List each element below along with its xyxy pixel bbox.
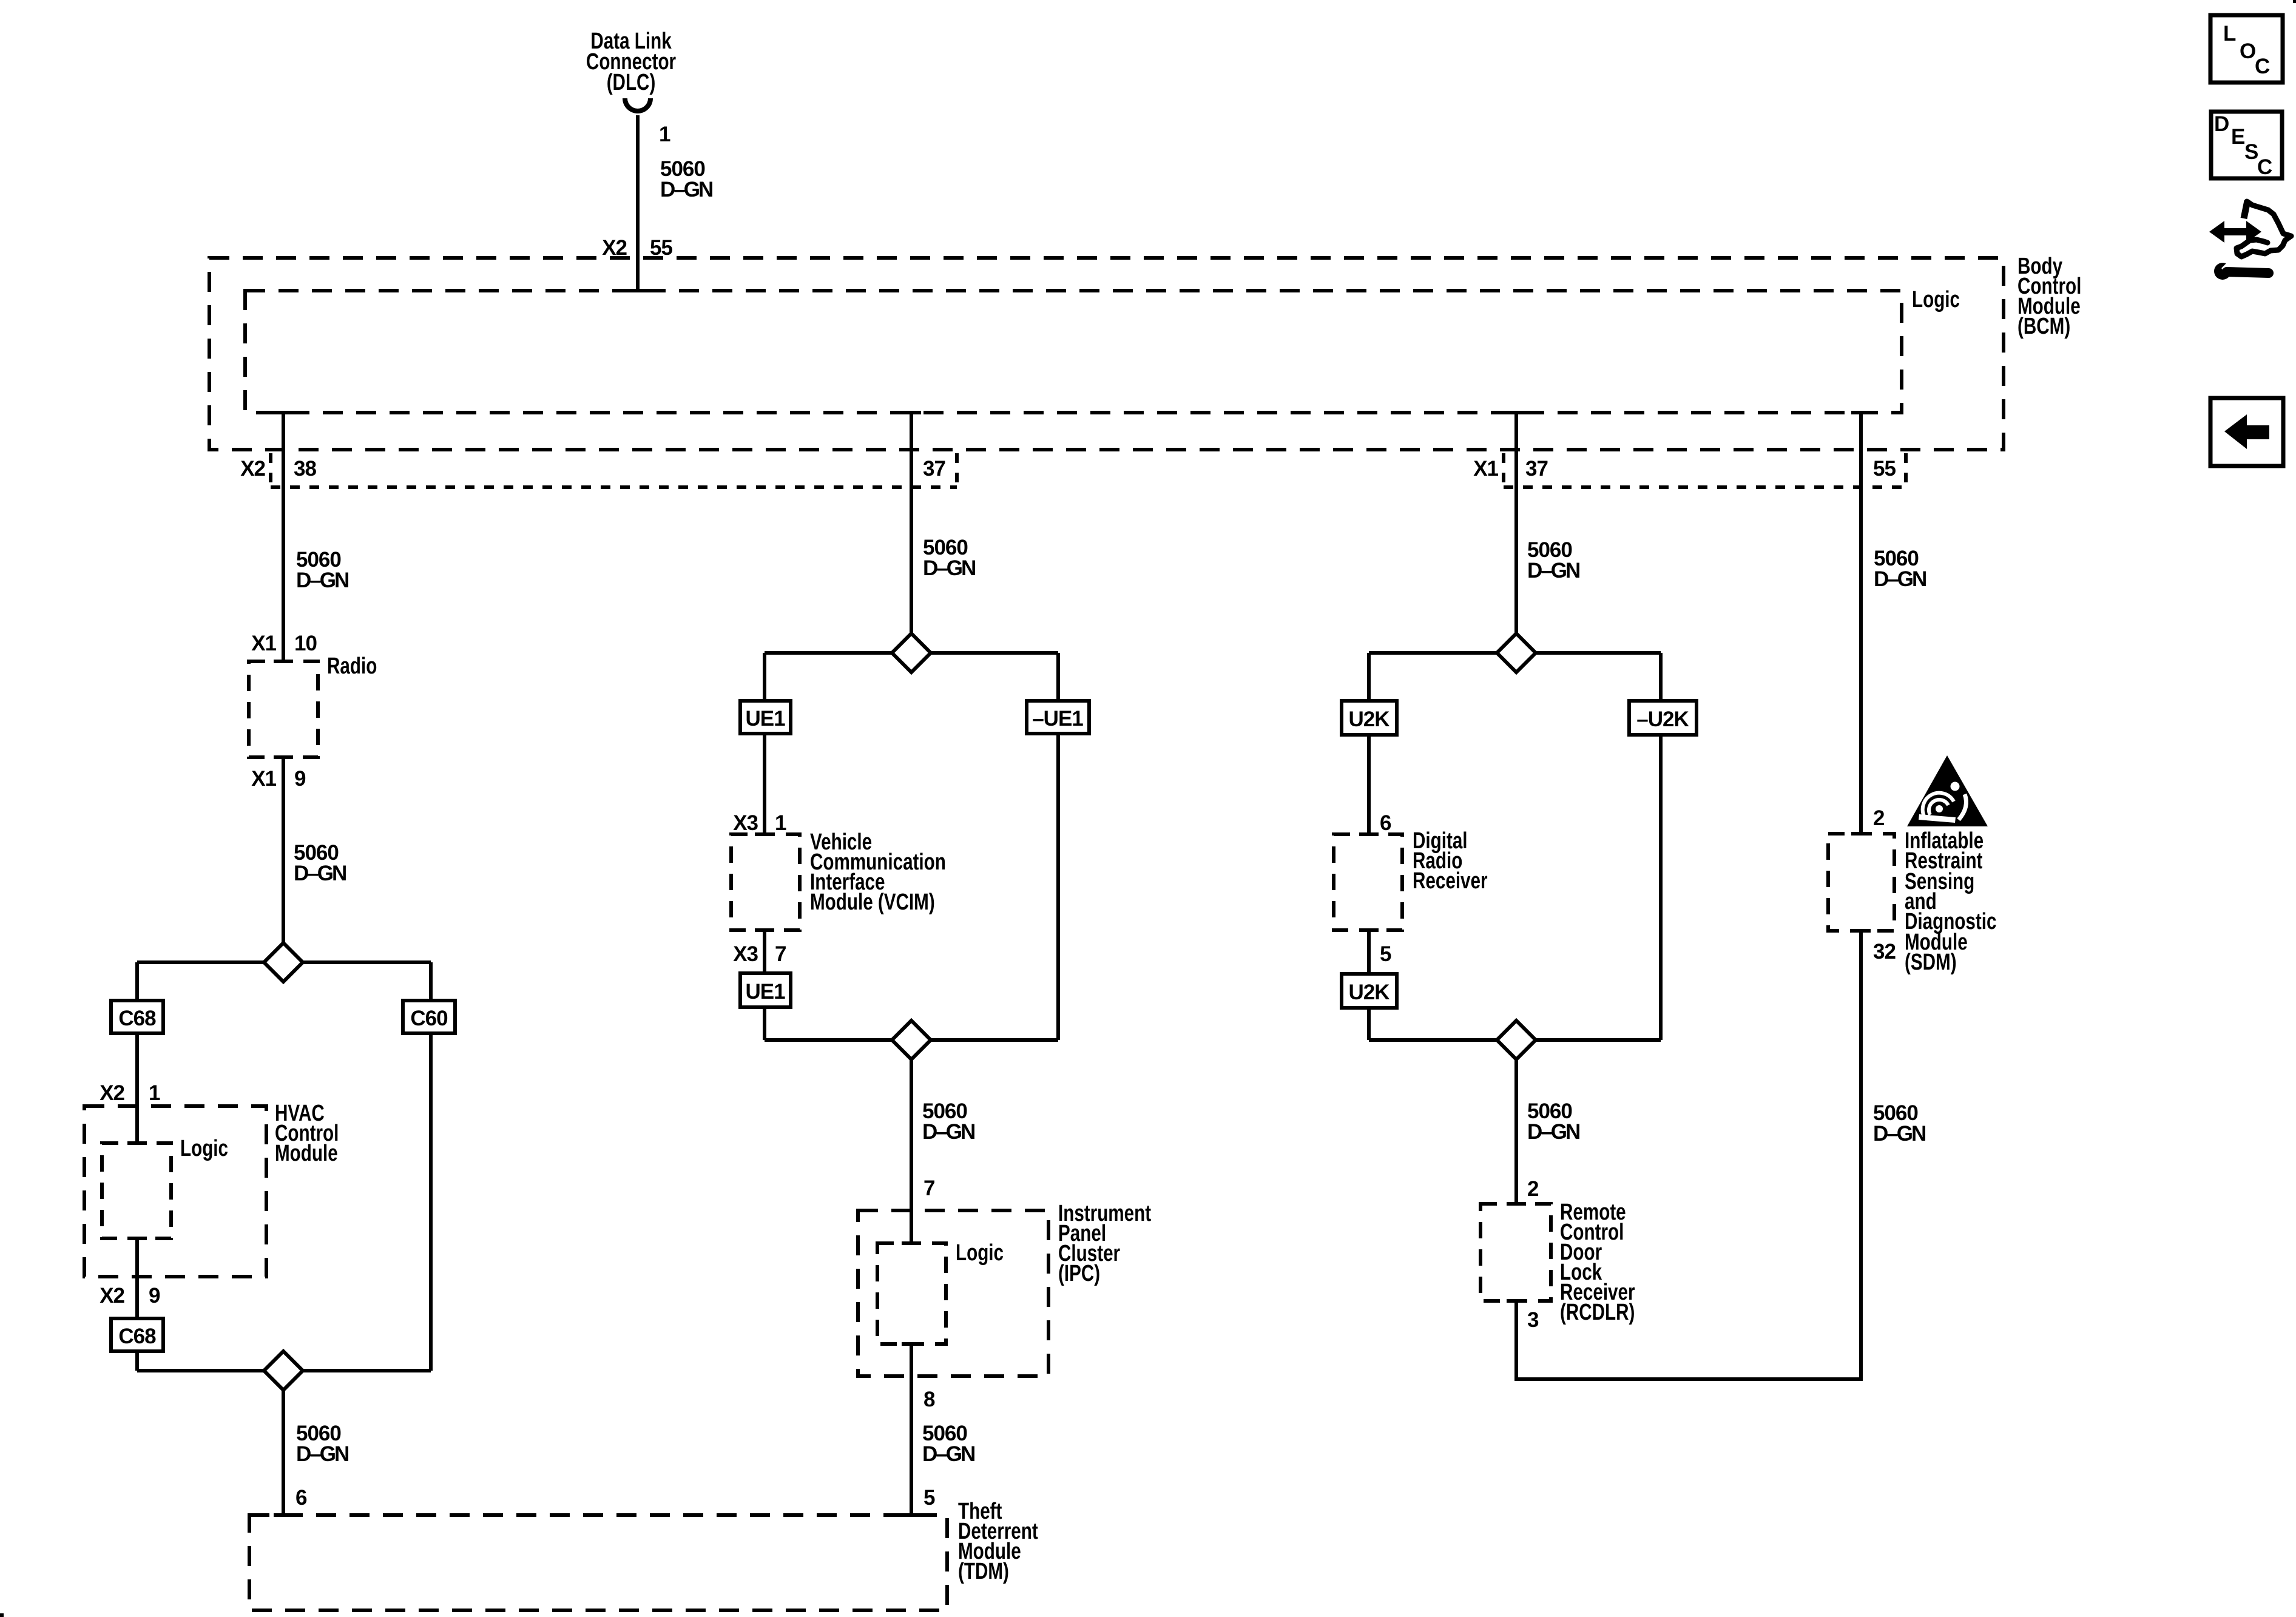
fuse U2K (lower) xyxy=(1342,974,1397,1008)
Digital Radio Receiver label xyxy=(1413,828,1488,894)
wire HVAC X2-9 to C68 xyxy=(135,1238,139,1318)
svg-text:Logic: Logic xyxy=(180,1136,228,1161)
svg-text:Receiver: Receiver xyxy=(1413,868,1488,894)
svg-text:C60: C60 xyxy=(410,1007,448,1030)
VCIM dashed box xyxy=(731,834,800,930)
svg-text:X1: X1 xyxy=(251,632,276,655)
connector C68 (upper) xyxy=(111,1001,163,1033)
wire end tick at SDM top xyxy=(1851,832,1871,836)
svg-text:D–GN: D–GN xyxy=(1527,559,1579,582)
splice diamond (Radio/HVAC top) xyxy=(264,943,303,982)
svg-text:U2K: U2K xyxy=(1348,707,1389,731)
wire tick at BCM logic bottom pin 37 (X1) xyxy=(1507,411,1526,414)
svg-text:Radio: Radio xyxy=(327,653,377,679)
svg-text:1: 1 xyxy=(149,1081,160,1105)
DRR loop bottom wire xyxy=(1369,1038,1661,1042)
svg-text:37: 37 xyxy=(1525,457,1548,481)
svg-text:1: 1 xyxy=(659,123,670,146)
svg-text:2: 2 xyxy=(1527,1177,1539,1201)
wire DRR pin 5 to U2K lower xyxy=(1367,930,1371,974)
wire U2K to DRR pin 6 xyxy=(1367,735,1371,834)
wire start tick at SDM bottom xyxy=(1851,929,1871,933)
wire start tick at RCDLR bottom xyxy=(1507,1299,1526,1303)
wire end tick at Radio top xyxy=(274,660,293,663)
wire BCM pin 38 to Radio X1-10 xyxy=(282,413,285,661)
wire BCM X1-37 to splice xyxy=(1514,413,1518,636)
svg-text:9: 9 xyxy=(294,767,306,791)
fuse UE1 (upper) xyxy=(740,701,791,734)
fuse UE1 (lower) xyxy=(740,973,791,1007)
svg-text:38: 38 xyxy=(294,457,316,481)
HVAC Control Module label xyxy=(275,1101,339,1166)
svg-text:37: 37 xyxy=(923,457,945,481)
BCM X2 pin strip (pins 38, 37) xyxy=(271,453,957,487)
svg-text:55: 55 xyxy=(1873,457,1896,481)
wire Radio X1-9 to splice xyxy=(282,757,285,945)
harness routing icon: double arrow xyxy=(2209,221,2261,243)
wire C68 to HVAC X2-1 xyxy=(135,1033,139,1143)
harness routing icon: body outline xyxy=(2237,201,2291,257)
LOC legend box xyxy=(2210,15,2283,83)
svg-text:10: 10 xyxy=(294,632,317,655)
svg-text:U2K: U2K xyxy=(1348,981,1389,1004)
svg-text:Module (VCIM): Module (VCIM) xyxy=(810,890,935,915)
wire end tick at TDM pin 6 xyxy=(274,1513,293,1517)
svg-text:Logic: Logic xyxy=(1912,287,1960,312)
svg-text:Module: Module xyxy=(275,1141,338,1166)
HVAC loop right wire xyxy=(429,962,433,1371)
BCM X1 pin strip (pins 37, 55) xyxy=(1504,453,1906,487)
Theft Deterrent Module (TDM) label xyxy=(958,1499,1038,1584)
svg-text:L: L xyxy=(2223,22,2236,46)
svg-text:D–GN: D–GN xyxy=(296,569,348,592)
page corner dot top-right xyxy=(2293,0,2296,3)
Vehicle Communication Interface Module (VCIM) label xyxy=(810,829,946,915)
wire splice to RCDLR pin 2 xyxy=(1514,1058,1518,1204)
svg-text:5: 5 xyxy=(1380,942,1391,966)
VCIM loop bottom wire xyxy=(765,1038,1058,1042)
wire BCM X2-37 to splice xyxy=(910,413,913,636)
Radio dashed box xyxy=(249,661,318,757)
svg-text:X1: X1 xyxy=(251,767,276,791)
svg-text:D–GN: D–GN xyxy=(1527,1120,1579,1144)
DRR loop top wire xyxy=(1369,651,1661,655)
svg-text:C68: C68 xyxy=(118,1007,156,1030)
svg-text:UE1: UE1 xyxy=(745,707,785,731)
DLC connector half-circle symbol xyxy=(625,98,650,111)
svg-text:6: 6 xyxy=(295,1486,307,1510)
harness routing icon: wrench xyxy=(2214,261,2269,280)
splice diamond (DRR top) xyxy=(1497,633,1536,672)
svg-text:–UE1: –UE1 xyxy=(1032,707,1083,731)
svg-text:O: O xyxy=(2240,39,2255,63)
splice diamond (HVAC bottom) xyxy=(264,1351,303,1390)
Remote Control Door Lock Receiver dashed box xyxy=(1481,1204,1551,1301)
svg-text:8: 8 xyxy=(923,1388,935,1411)
BCM inner Logic dashed box xyxy=(245,291,1902,413)
VCIM loop top wire xyxy=(765,651,1058,655)
svg-text:C: C xyxy=(2257,155,2272,179)
wire start tick at DRR bottom xyxy=(1359,928,1379,932)
wire end tick at VCIM top xyxy=(755,832,774,836)
svg-text:D–GN: D–GN xyxy=(922,1120,974,1144)
svg-text:1: 1 xyxy=(775,811,786,835)
wire end tick at HVAC logic top xyxy=(127,1141,147,1145)
DESC legend box xyxy=(2211,112,2282,179)
fuse -U2K xyxy=(1629,701,1697,735)
wire end tick at DRR top xyxy=(1359,832,1379,836)
svg-text:(RCDLR): (RCDLR) xyxy=(1560,1300,1635,1325)
HVAC inner Logic dashed box xyxy=(102,1143,171,1238)
fuse U2K (upper) xyxy=(1342,701,1397,735)
svg-text:3: 3 xyxy=(1527,1308,1539,1332)
svg-text:D–GN: D–GN xyxy=(1873,1122,1925,1146)
svg-text:X2: X2 xyxy=(100,1284,124,1308)
connector C68 (lower) xyxy=(111,1318,163,1351)
svg-text:32: 32 xyxy=(1873,940,1896,964)
svg-text:9: 9 xyxy=(149,1284,160,1308)
HVAC loop top wire xyxy=(137,960,431,964)
wire tick at BCM logic bottom pin 37 (X2) xyxy=(902,411,921,414)
wire end tick at RCDLR top xyxy=(1507,1202,1526,1206)
svg-text:D–GN: D–GN xyxy=(1874,567,1926,591)
svg-text:7: 7 xyxy=(923,1176,934,1200)
wire VCIM X3-7 to UE1 lower xyxy=(763,930,766,973)
splice diamond (VCIM top) xyxy=(892,633,931,672)
HVAC loop bottom wire xyxy=(137,1369,431,1372)
Remote Control Door Lock Receiver (RCDLR) label xyxy=(1560,1200,1635,1325)
DRR loop right wire xyxy=(1659,653,1663,1040)
Digital Radio Receiver dashed box xyxy=(1334,834,1402,930)
wire splice to TDM pin 6 xyxy=(282,1389,285,1515)
svg-text:D: D xyxy=(2214,112,2229,136)
Body Control Module (BCM) label xyxy=(2017,254,2081,339)
svg-text:D–GN: D–GN xyxy=(923,556,975,580)
splice diamond (DRR bottom) xyxy=(1497,1021,1536,1059)
svg-text:(SDM): (SDM) xyxy=(1905,950,1957,975)
connector C60 xyxy=(403,1001,455,1033)
back-arrow legend box xyxy=(2210,398,2283,466)
svg-text:D–GN: D–GN xyxy=(296,1442,348,1466)
wire start tick at Radio bottom xyxy=(274,755,293,759)
svg-text:S: S xyxy=(2244,140,2258,164)
svg-text:X3: X3 xyxy=(733,942,758,966)
Instrument Panel Cluster (IPC) label xyxy=(1058,1201,1151,1286)
Logic label (BCM) xyxy=(1912,287,1960,312)
wire DRR loop left upper xyxy=(1367,653,1371,701)
wire DLC pin 1 to BCM X2-55 xyxy=(636,115,640,291)
svg-text:2: 2 xyxy=(1873,806,1885,830)
svg-text:–U2K: –U2K xyxy=(1636,707,1689,731)
svg-text:X2: X2 xyxy=(100,1081,124,1105)
wire start tick at VCIM bottom xyxy=(755,928,774,932)
svg-text:7: 7 xyxy=(775,942,786,966)
fuse -UE1 xyxy=(1027,701,1089,734)
wire end tick at TDM pin 5 xyxy=(902,1513,921,1517)
wire splice to IPC pin 7 xyxy=(910,1058,913,1243)
Logic label (IPC) xyxy=(956,1240,1004,1266)
svg-text:Logic: Logic xyxy=(956,1240,1004,1266)
Inflatable Restraint SDM dashed box xyxy=(1828,834,1894,931)
Logic label (HVAC) xyxy=(180,1136,228,1161)
HVAC Control Module outer dashed box xyxy=(84,1106,266,1277)
wire start tick at HVAC logic bottom xyxy=(127,1237,147,1240)
svg-text:(BCM): (BCM) xyxy=(2017,314,2070,339)
wire UE1 lower to loop bottom xyxy=(763,1007,766,1040)
splice diamond (VCIM bottom) xyxy=(892,1021,931,1059)
wire tick at BCM logic bottom pin 38 xyxy=(274,411,293,414)
wire BCM X1-55 to SDM pin 2 xyxy=(1859,413,1863,834)
Data Link Connector (DLC) label xyxy=(586,29,676,95)
svg-text:D–GN: D–GN xyxy=(922,1442,974,1466)
wire end tick at BCM logic xyxy=(628,289,647,292)
svg-text:X3: X3 xyxy=(733,811,758,835)
IPC inner Logic dashed box xyxy=(877,1243,946,1344)
svg-text:X2: X2 xyxy=(240,457,265,481)
Instrument Panel Cluster outer dashed box xyxy=(858,1210,1048,1376)
wire HVAC loop left upper xyxy=(135,962,139,1001)
svg-text:5: 5 xyxy=(923,1486,935,1510)
wire end tick at IPC logic top xyxy=(902,1241,921,1245)
wire U2K lower to loop bottom xyxy=(1367,1008,1371,1040)
wire RCDLR pin 3 down and right to SDM pin 32 xyxy=(1516,931,1861,1379)
svg-text:D–GN: D–GN xyxy=(294,862,346,885)
svg-text:E: E xyxy=(2231,125,2244,149)
SIR warning triangle xyxy=(1907,755,1988,826)
svg-text:X1: X1 xyxy=(1473,457,1498,481)
svg-text:(DLC): (DLC) xyxy=(607,70,656,95)
page corner dot bottom-left xyxy=(0,1613,4,1617)
wire IPC pin 8 to TDM pin 5 xyxy=(910,1344,913,1515)
svg-text:UE1: UE1 xyxy=(745,980,785,1004)
svg-text:(TDM): (TDM) xyxy=(958,1559,1009,1584)
wire start tick at IPC logic bottom xyxy=(902,1342,921,1346)
Body Control Module (BCM) outer dashed box xyxy=(209,258,2004,450)
Theft Deterrent Module dashed box xyxy=(249,1515,947,1610)
svg-text:C68: C68 xyxy=(118,1325,156,1348)
svg-text:(IPC): (IPC) xyxy=(1058,1261,1100,1286)
wire tick at BCM logic bottom pin 55 xyxy=(1851,411,1871,414)
wire C68 lower to loop bottom xyxy=(135,1351,139,1371)
VCIM loop right wire xyxy=(1056,653,1060,1040)
Inflatable Restraint Sensing and Diagnostic Module (SDM) label xyxy=(1905,828,1996,975)
wire UE1 to VCIM X3-1 xyxy=(763,734,766,834)
wire VCIM loop left upper xyxy=(763,653,766,701)
svg-text:D–GN: D–GN xyxy=(660,178,712,201)
Radio label xyxy=(327,653,377,679)
svg-text:C: C xyxy=(2255,55,2270,78)
svg-text:6: 6 xyxy=(1380,811,1391,835)
